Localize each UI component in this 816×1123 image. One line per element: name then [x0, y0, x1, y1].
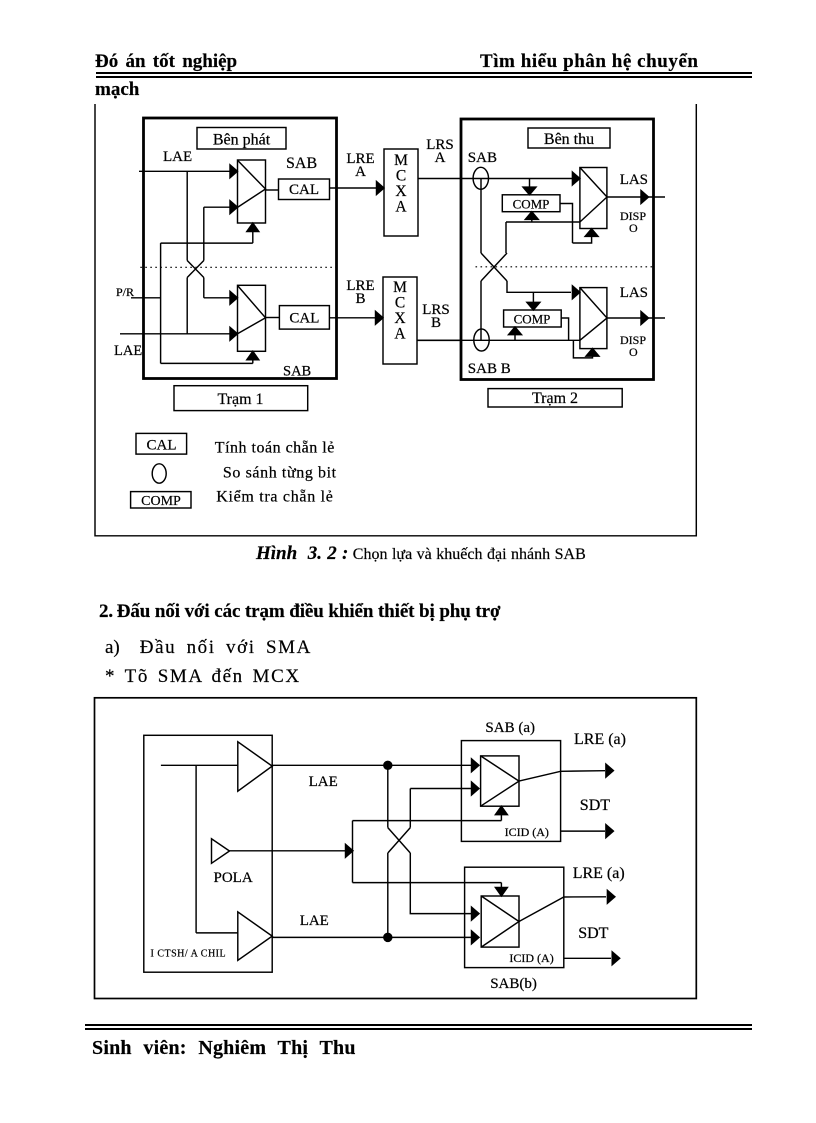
wire feedback top horizontal [161, 242, 253, 244]
wire LRE(a) output bottom [519, 890, 615, 921]
svg-text:O: O [629, 221, 638, 235]
svg-text:Kiểm tra chẵn lẻ: Kiểm tra chẵn lẻ [216, 489, 333, 506]
arrow wire into COMP B bottom [509, 327, 522, 340]
arrow wire into COMP A top [523, 179, 536, 195]
legend ellipse [152, 464, 166, 483]
amplifier B2 (tram2 bottom) [580, 288, 607, 349]
wire vertical V2 from amp input2 [203, 207, 205, 260]
wire X to bottom dot [387, 853, 389, 937]
legend CAL box [136, 433, 187, 454]
svg-text:LAE: LAE [309, 774, 338, 790]
under loop amp B2 [573, 340, 599, 358]
wire X to amp B input1 [410, 853, 479, 920]
svg-text:ICID (A): ICID (A) [509, 951, 553, 965]
amplifier T2 (fig2 bottom) [238, 912, 272, 961]
small amp box A [481, 756, 519, 806]
svg-text:SAB: SAB [283, 364, 311, 380]
svg-text:Tính toán chẵn lẻ: Tính toán chẵn lẻ [215, 440, 335, 457]
wire into T1 [161, 764, 238, 766]
footer rule [85, 1024, 752, 1030]
left device box [144, 735, 272, 972]
wire into T2 [196, 932, 238, 934]
svg-text:LAS: LAS [620, 285, 648, 301]
SAB(b) box [465, 867, 564, 967]
ben phat label box [197, 128, 286, 150]
section heading 2 [99, 601, 500, 623]
amplifier POLA [212, 839, 230, 864]
wire amp A1 to CAL [266, 189, 279, 191]
svg-text:A: A [435, 150, 446, 166]
svg-text:So sánh từng bit: So sánh từng bit [223, 465, 337, 482]
svg-text:SDT: SDT [580, 797, 610, 814]
figure2 frame [95, 698, 697, 999]
header left title [95, 51, 237, 73]
wire input2 down to X [409, 789, 411, 828]
svg-text:Trạm 1: Trạm 1 [217, 391, 263, 408]
wire LAS A output [607, 191, 665, 204]
MCXA B box [383, 277, 417, 364]
junction dot top [384, 761, 392, 769]
svg-text:CAL: CAL [147, 438, 177, 454]
svg-text:COMP: COMP [513, 197, 550, 212]
arrow into amp A2 bottom [247, 351, 259, 363]
tram1 label box [174, 386, 308, 411]
svg-text:CAL: CAL [289, 182, 319, 198]
svg-text:SAB: SAB [286, 155, 317, 172]
wire vertical V1 from LAE-A [186, 171, 188, 260]
dotted line tram1 [140, 266, 336, 268]
wire LAE bottom input [120, 327, 238, 340]
svg-text:C: C [395, 294, 405, 311]
COMP box top [502, 195, 560, 212]
wire POLA output [230, 844, 354, 857]
figure1 frame [95, 104, 696, 536]
CAL box top [279, 179, 330, 200]
item a [105, 637, 312, 659]
svg-text:SAB B: SAB B [468, 361, 511, 377]
svg-text:B: B [355, 291, 365, 307]
wire X down to ellipse B [480, 281, 482, 340]
crossover X tram2 [481, 253, 507, 281]
wire vertical to X top right [505, 222, 507, 253]
svg-text:COMP: COMP [514, 312, 551, 327]
svg-text:B: B [431, 315, 441, 331]
amplifier B1 (tram2 top) [580, 168, 607, 229]
wire LRS A inside tram2 [461, 172, 580, 185]
wire V1 below X to bottom LAE [186, 278, 188, 334]
arrow into amp A1 bottom [247, 223, 259, 243]
ben thu label box [528, 128, 610, 148]
wire CAL to MCXA B (LRE B) [329, 311, 383, 324]
wire amp A second input [410, 782, 479, 795]
wire LRE(a) output top [519, 764, 613, 781]
wire ellipse A down [480, 179, 482, 254]
wire LAE top input [139, 165, 238, 178]
compare ellipse top [473, 167, 488, 189]
svg-text:I CTSH/ A CHIL: I CTSH/ A CHIL [151, 949, 227, 960]
tram1 box [144, 118, 337, 379]
dotted line tram2 [476, 266, 656, 268]
svg-text:LAS: LAS [620, 172, 648, 188]
wire branch vertical [195, 765, 197, 933]
wire feedback bottom horizontal [161, 362, 253, 364]
header word mach [95, 79, 139, 101]
svg-text:ICID (A): ICID (A) [505, 825, 549, 839]
svg-text:LRE (a): LRE (a) [574, 731, 626, 748]
wire P/R input [131, 297, 161, 299]
wire amp A2 to CAL [266, 317, 280, 319]
wire SDT output bottom [564, 952, 620, 965]
tram2 box [461, 119, 654, 380]
wire horizontal under COMP A [506, 221, 580, 223]
svg-text:X: X [394, 310, 405, 327]
CAL box bottom [279, 306, 329, 330]
svg-text:POLA: POLA [214, 870, 253, 886]
svg-text:CAL: CAL [289, 311, 319, 327]
legend COMP box [131, 492, 191, 508]
svg-text:SAB (a): SAB (a) [485, 720, 535, 736]
wire top amp input2 [204, 201, 238, 214]
svg-text:LAE: LAE [163, 149, 192, 165]
pola bus left vertical [352, 821, 354, 883]
FIGURE 2 [95, 698, 697, 999]
item * [105, 666, 301, 688]
svg-text:Trạm 2: Trạm 2 [532, 390, 578, 407]
svg-text:COMP: COMP [141, 494, 181, 509]
tram2 label box [488, 389, 622, 407]
svg-text:LAE: LAE [114, 343, 142, 359]
wire CAL to MCXA A (LRE A) [330, 182, 385, 195]
crossover X fig2 [388, 828, 411, 853]
svg-text:Bên thu: Bên thu [544, 131, 594, 148]
wire MCXA B to tram2 (LRS B) [417, 339, 461, 341]
svg-text:A: A [395, 198, 407, 215]
small amp box B [481, 896, 519, 947]
amplifier T1 (fig2 top) [238, 742, 272, 791]
svg-text:LAE: LAE [300, 913, 329, 929]
svg-text:SDT: SDT [578, 925, 608, 942]
under loop amp B1 [573, 229, 599, 243]
MCXA A box [384, 149, 418, 236]
svg-text:O: O [629, 345, 638, 359]
junction dot bottom [384, 933, 392, 941]
wire SAB B inside tram2 [417, 339, 580, 341]
header right title [480, 51, 699, 73]
svg-text:SAB(b): SAB(b) [490, 976, 537, 992]
COMP A right stub [560, 204, 573, 244]
svg-text:LRE (a): LRE (a) [573, 865, 625, 882]
amplifier A2 (tram1 bottom) [238, 285, 266, 351]
wire top dot down to X [387, 765, 389, 827]
svg-text:SAB: SAB [468, 150, 497, 166]
caption figure 3.2 [256, 545, 586, 564]
wire V2 below X to bottom amp input1 [203, 278, 205, 298]
svg-text:A: A [394, 326, 406, 343]
wire MCXA A to tram2 (LRS A) [418, 178, 461, 180]
header rule [96, 72, 752, 78]
pola bus top horizontal [353, 820, 502, 822]
arrow into amp A bottom [495, 806, 507, 820]
COMP box bottom [504, 310, 562, 327]
wire X to bottom amp input [507, 281, 580, 299]
svg-text:P/R: P/R [116, 285, 134, 299]
crossover X tram1 [187, 261, 204, 278]
svg-text:Bên phát: Bên phát [213, 132, 271, 149]
compare ellipse bottom [474, 329, 489, 351]
arrow wire into COMP A bottom [525, 212, 538, 222]
wire LAE top [272, 759, 479, 772]
arrow into amp B top [495, 883, 507, 896]
footer text [92, 1037, 356, 1060]
COMP B right stub [561, 318, 568, 340]
wire bottom amp input1 [204, 291, 238, 304]
svg-text:A: A [355, 164, 366, 180]
wire P/R vertical bus [160, 243, 162, 363]
pola bus bottom horizontal [353, 882, 502, 884]
wire SDT output top [561, 825, 614, 838]
wire LAE bottom [272, 931, 479, 944]
amplifier A1 (tram1 top) [238, 160, 266, 223]
arrow wire into COMP B top [527, 292, 540, 310]
wire LAS B output [607, 312, 665, 325]
SAB(a) box [461, 741, 560, 842]
